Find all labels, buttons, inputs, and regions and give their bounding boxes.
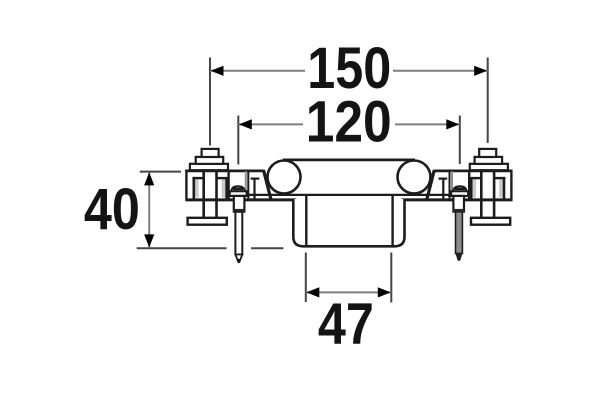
left leg wing gray fill outer (195, 179, 199, 197)
dimension 40 line (148, 172, 150, 247)
svg-text:40: 40 (84, 177, 140, 242)
dimension 120 label (303, 100, 395, 143)
dimension 150 extension line left (209, 58, 211, 146)
left leg screw head slot (233, 187, 243, 190)
dimension 40 extension line top (140, 171, 181, 173)
right leg screw shaft (456, 212, 463, 254)
dimension 40 extension line bottom right (251, 247, 283, 249)
dimension 47 arrow left (306, 287, 319, 297)
left leg valve block inner wall (227, 170, 229, 199)
left leg tee handle bar (188, 218, 227, 225)
right leg strap diagonal (427, 170, 434, 199)
left leg spindle right edge (215, 171, 218, 218)
dimension 150 arrow left (211, 66, 224, 76)
housing box inner left wall (305, 195, 307, 246)
right leg cap tier3 (470, 164, 508, 170)
right leg screw shank collar (453, 209, 464, 212)
dimension 150 extension line right (487, 58, 489, 144)
dimension 40 arrow top (144, 172, 154, 185)
right leg spindle left edge (493, 171, 496, 218)
right leg tee handle bar (471, 218, 510, 225)
dimension 120 extension line left (237, 116, 239, 165)
right leg clamp jaw dark wall (449, 171, 451, 199)
right leg screw head slot (455, 187, 465, 190)
dimension 40 arrow bottom (144, 234, 154, 247)
right leg cap top (479, 149, 496, 157)
right leg screw shank (453, 196, 464, 212)
dimension 120 arrow right (446, 119, 459, 129)
housing box inner right wall (391, 195, 393, 246)
left leg screw shank (234, 196, 245, 212)
right leg wing inner vertical (470, 177, 473, 199)
dimension 47 extension line right (390, 253, 392, 303)
dimension 47 extension line left (305, 253, 307, 303)
housing box outline (293, 199, 404, 246)
svg-text:120: 120 (306, 89, 392, 154)
left leg screw shaft (235, 212, 242, 255)
left leg screw flange (230, 191, 247, 196)
left leg screw tip (235, 255, 242, 263)
dimension 47 line (306, 291, 392, 293)
left leg screw head dome (231, 186, 245, 191)
bracket plate bottom edge right (401, 198, 512, 201)
left leg wing notch inner (216, 177, 225, 179)
bracket plate bottom edge left (185, 198, 296, 201)
left leg wing gray fill inner (222, 179, 226, 197)
right leg clamp shelf line (448, 195, 469, 197)
right leg valve block outer wall (510, 170, 512, 199)
left leg clamp jaw gray wall (245, 171, 247, 196)
spout body left cap circle (268, 161, 301, 194)
left leg strap bend vertical (253, 179, 255, 199)
right leg screw tip (456, 254, 463, 261)
left leg screw tip point (237, 259, 240, 263)
right leg wing gray fill outer (499, 179, 503, 197)
left leg cap top (202, 149, 219, 157)
right leg valve block inner wall (468, 170, 470, 199)
spout body top line (283, 158, 415, 161)
left leg valve block outer wall (185, 170, 187, 199)
dimension 120 line (238, 123, 459, 125)
right leg strap bend vertical (442, 179, 444, 199)
dimension 40 extension line bottom left (137, 247, 227, 249)
left leg wing notch outer (192, 177, 204, 179)
dimension 120 arrow left (239, 119, 252, 129)
left leg clamp jaw dark wall (247, 171, 249, 199)
right leg screw head dome (453, 186, 467, 191)
left leg top plate line (185, 169, 263, 172)
right leg cap tier2 (475, 157, 503, 164)
dimension 150 arrow right (474, 66, 487, 76)
dimension 120 extension line right (459, 116, 461, 165)
left leg cap tier2 (196, 157, 224, 164)
spout body right cap circle (398, 161, 431, 194)
left leg spindle left edge (202, 171, 205, 218)
left leg strap bend horizontal (251, 178, 260, 180)
right leg clamp jaw gray wall (451, 171, 453, 196)
dimension 150 label (305, 46, 393, 89)
right leg top plate line (434, 169, 512, 172)
svg-text:47: 47 (318, 292, 374, 357)
right leg spindle right edge (480, 171, 483, 218)
dimension 47 arrow right (378, 287, 391, 297)
left leg wing outer vertical (193, 177, 196, 199)
right leg wing notch inner (472, 177, 481, 179)
right leg screw flange (451, 191, 468, 196)
left leg clamp shelf line (229, 195, 250, 197)
right leg wing notch outer (494, 177, 506, 179)
right leg strap bend horizontal (439, 178, 448, 180)
left leg strap diagonal (264, 170, 271, 199)
left leg screw shank collar (234, 209, 245, 212)
right leg wing outer vertical (503, 177, 506, 199)
left leg cap tier3 (190, 164, 228, 170)
right leg wing gray fill inner (473, 179, 477, 197)
dimension 150 line (210, 70, 488, 72)
spout body bottom line (246, 194, 453, 196)
left leg wing inner vertical (225, 177, 228, 199)
